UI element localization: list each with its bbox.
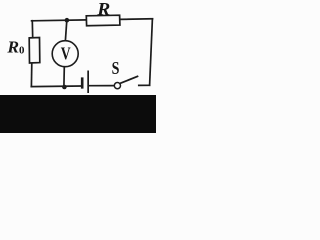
switch S1 pivot circle <box>114 83 120 89</box>
wire voltmeter bottom <box>63 67 65 87</box>
wire top-right horizontal <box>120 18 153 21</box>
wire right vertical <box>150 19 153 85</box>
battery BT1 short plate <box>81 77 84 88</box>
wire left lower vertical <box>30 63 32 87</box>
svg-text:V: V <box>61 44 71 64</box>
svg-text:R: R <box>96 0 110 19</box>
wire bottom-left horizontal <box>31 85 81 88</box>
wire voltmeter top <box>65 20 66 40</box>
wire switch to bottom-right corner <box>139 84 150 86</box>
wire top-left horizontal <box>32 19 87 22</box>
node junction bottom <box>62 85 67 90</box>
switch S1 arm <box>120 76 138 83</box>
wire battery to switch <box>89 85 115 87</box>
resistor R0 box <box>29 38 40 64</box>
voltmeter U1 circle <box>52 41 78 67</box>
wire left upper vertical <box>31 21 33 38</box>
svg-text:0: 0 <box>19 44 25 56</box>
battery BT1 long plate <box>87 71 89 94</box>
black band (scan artifact) <box>0 95 156 133</box>
node junction top <box>65 18 70 23</box>
svg-text:R: R <box>6 37 19 56</box>
svg-text:S: S <box>112 58 120 78</box>
resistor R1 (R) box <box>86 15 120 26</box>
